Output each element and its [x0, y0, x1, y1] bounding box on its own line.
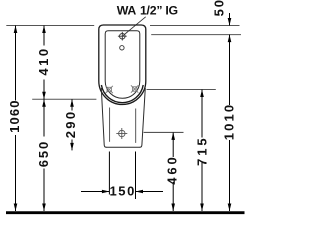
svg-text:50: 50	[212, 0, 227, 16]
wire: water connection level line right (1010 level)	[151, 34, 241, 36]
wire: fixing hole level line (715 level)	[147, 89, 216, 91]
urinal lower housing left edge	[101, 88, 106, 147]
svg-text:150: 150	[109, 184, 136, 199]
siphon cover right edge	[135, 109, 137, 143]
dimension 50	[212, 0, 232, 25]
svg-text:1060: 1060	[7, 99, 22, 133]
dimension 290	[63, 99, 78, 150]
water connection crosshair WA 1/2	[118, 32, 127, 41]
wire: 650/410 split level line	[32, 98, 96, 100]
svg-text:290: 290	[63, 110, 78, 139]
fixing hole right	[131, 85, 138, 92]
svg-text:WA 1/2” IG: WA 1/2” IG	[117, 4, 178, 18]
urinal outer body outline	[99, 25, 146, 104]
svg-text:410: 410	[36, 46, 51, 75]
fixing hole left	[106, 86, 113, 93]
urinal inner rim outline	[105, 31, 140, 99]
dimension 1060	[7, 26, 22, 212]
dimension 410	[36, 26, 51, 100]
dimension 1010	[222, 35, 237, 211]
wire: top reference line right (1060 level)	[150, 25, 240, 27]
dimension 150	[81, 152, 163, 200]
urinal lower housing right edge	[140, 88, 146, 147]
flush hole small circle	[120, 46, 124, 50]
wire: leader line from label to water connection	[123, 17, 146, 36]
dimension 715	[194, 90, 209, 212]
svg-text:460: 460	[165, 154, 180, 184]
svg-text:1010: 1010	[222, 103, 237, 141]
urinal lower housing bottom edge	[106, 146, 140, 148]
wire: outlet level line (460 level)	[144, 131, 184, 133]
svg-text:715: 715	[194, 136, 209, 166]
dimension 460	[165, 132, 180, 211]
outlet crosshair	[116, 128, 127, 139]
siphon cover left edge	[109, 108, 111, 142]
dimension 650	[36, 99, 51, 211]
urinal rim band arc	[101, 85, 143, 103]
wire: floor line	[6, 211, 245, 214]
wire: top reference line left (1060 level)	[6, 25, 94, 27]
svg-text:650: 650	[36, 140, 51, 167]
